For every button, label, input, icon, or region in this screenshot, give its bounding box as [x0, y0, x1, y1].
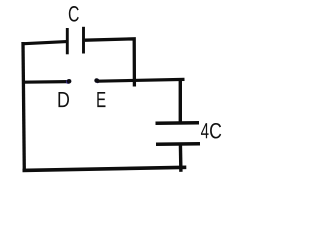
- capacitor C1 (value C) left plate: [66, 28, 69, 54]
- wire: bottom horizontal: [23, 167, 187, 170]
- wire: capacitor C right plate to right corner, then down to node E wire: [85, 39, 135, 87]
- node D terminal dot: [66, 79, 71, 84]
- capacitor C2 (value 4C) bottom plate: [156, 142, 200, 146]
- wire: middle left segment to node D: [22, 80, 68, 84]
- wire: middle right segment from node E to right corner: [97, 79, 185, 81]
- wire: top-left corner to capacitor C left plate: [22, 42, 67, 44]
- label D: [58, 92, 69, 107]
- label C (value of top capacitor): [69, 6, 79, 22]
- node E terminal dot: [94, 78, 100, 83]
- label E: [97, 92, 105, 107]
- capacitor C2 (value 4C) top plate: [156, 121, 200, 125]
- wire: right vertical lower, 4C bottom plate down to bottom wire: [179, 144, 183, 172]
- capacitor C1 (value C) right plate: [82, 27, 85, 54]
- label 4C: digit 4: [201, 123, 209, 138]
- wire: right vertical upper, down to capacitor 4C top plate: [179, 79, 182, 123]
- label 4C: letter C: [210, 123, 221, 139]
- wire: left vertical branch: [23, 42, 24, 171]
